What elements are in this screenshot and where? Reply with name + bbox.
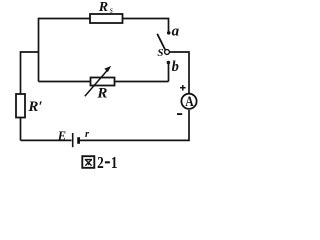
svg-text:R: R xyxy=(96,86,107,102)
svg-text:A: A xyxy=(185,93,194,110)
svg-text:R: R xyxy=(98,0,108,15)
svg-text:S: S xyxy=(157,47,163,59)
svg-text:a: a xyxy=(172,24,180,40)
svg-text:R′: R′ xyxy=(27,99,42,115)
svg-text:1: 1 xyxy=(111,153,118,172)
svg-text:E: E xyxy=(57,129,66,143)
svg-text:2: 2 xyxy=(97,153,104,172)
svg-text:b: b xyxy=(172,59,179,75)
svg-text:s: s xyxy=(110,6,113,15)
